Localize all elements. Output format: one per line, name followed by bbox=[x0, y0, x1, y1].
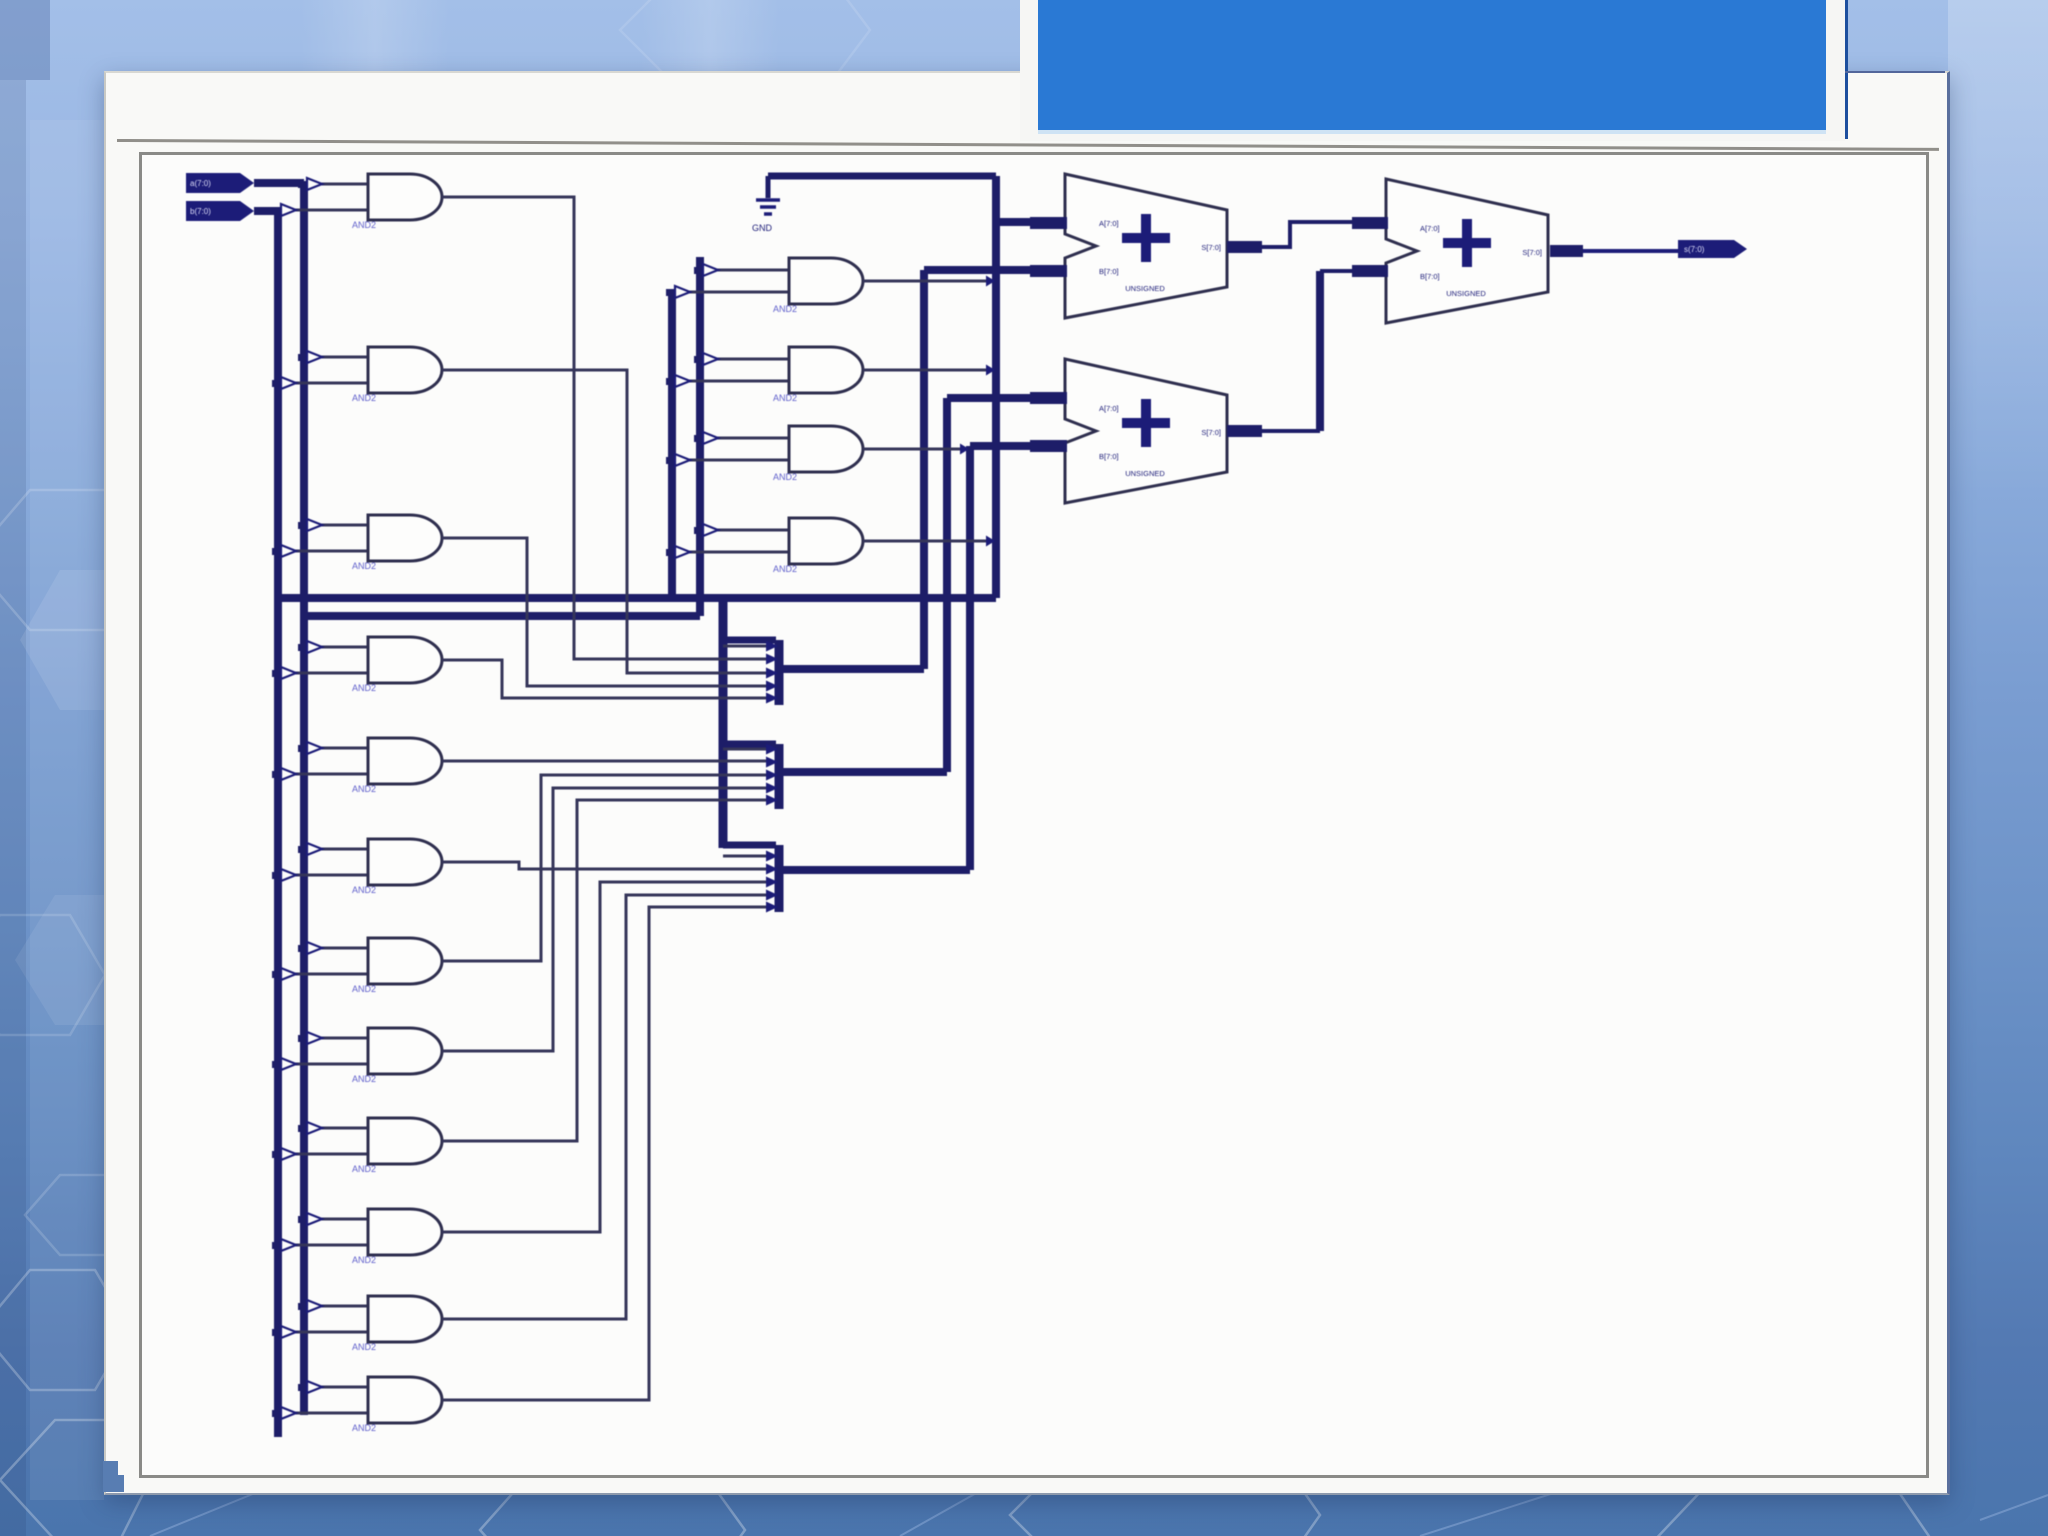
svg-text:AND2: AND2 bbox=[352, 984, 376, 994]
svg-text:B[7:0]: B[7:0] bbox=[1420, 272, 1440, 281]
svg-text:AND2: AND2 bbox=[352, 683, 376, 693]
svg-text:AND2: AND2 bbox=[773, 393, 797, 403]
svg-text:AND2: AND2 bbox=[352, 561, 376, 571]
svg-text:B[7:0]: B[7:0] bbox=[1099, 267, 1119, 276]
svg-text:A[7:0]: A[7:0] bbox=[1420, 224, 1440, 233]
svg-text:B[7:0]: B[7:0] bbox=[1099, 452, 1119, 461]
svg-text:AND2: AND2 bbox=[352, 1074, 376, 1084]
svg-text:S[7:0]: S[7:0] bbox=[1201, 428, 1221, 437]
svg-text:AND2: AND2 bbox=[352, 1423, 376, 1433]
svg-text:AND2: AND2 bbox=[352, 1342, 376, 1352]
svg-text:b(7:0): b(7:0) bbox=[190, 207, 211, 216]
svg-text:GND: GND bbox=[752, 223, 773, 233]
svg-text:UNSIGNED: UNSIGNED bbox=[1446, 289, 1486, 298]
svg-text:A[7:0]: A[7:0] bbox=[1099, 219, 1119, 228]
svg-text:S[7:0]: S[7:0] bbox=[1201, 243, 1221, 252]
svg-text:S[7:0]: S[7:0] bbox=[1522, 248, 1542, 257]
svg-text:AND2: AND2 bbox=[773, 472, 797, 482]
svg-text:AND2: AND2 bbox=[352, 393, 376, 403]
svg-text:s(7:0): s(7:0) bbox=[1684, 245, 1705, 254]
svg-text:AND2: AND2 bbox=[773, 564, 797, 574]
svg-text:UNSIGNED: UNSIGNED bbox=[1125, 284, 1165, 293]
svg-text:UNSIGNED: UNSIGNED bbox=[1125, 469, 1165, 478]
svg-text:AND2: AND2 bbox=[352, 885, 376, 895]
svg-text:AND2: AND2 bbox=[352, 1255, 376, 1265]
svg-text:AND2: AND2 bbox=[352, 784, 376, 794]
svg-text:a(7:0): a(7:0) bbox=[190, 179, 211, 188]
svg-text:A[7:0]: A[7:0] bbox=[1099, 404, 1119, 413]
svg-text:AND2: AND2 bbox=[773, 304, 797, 314]
svg-text:AND2: AND2 bbox=[352, 220, 376, 230]
svg-text:AND2: AND2 bbox=[352, 1164, 376, 1174]
